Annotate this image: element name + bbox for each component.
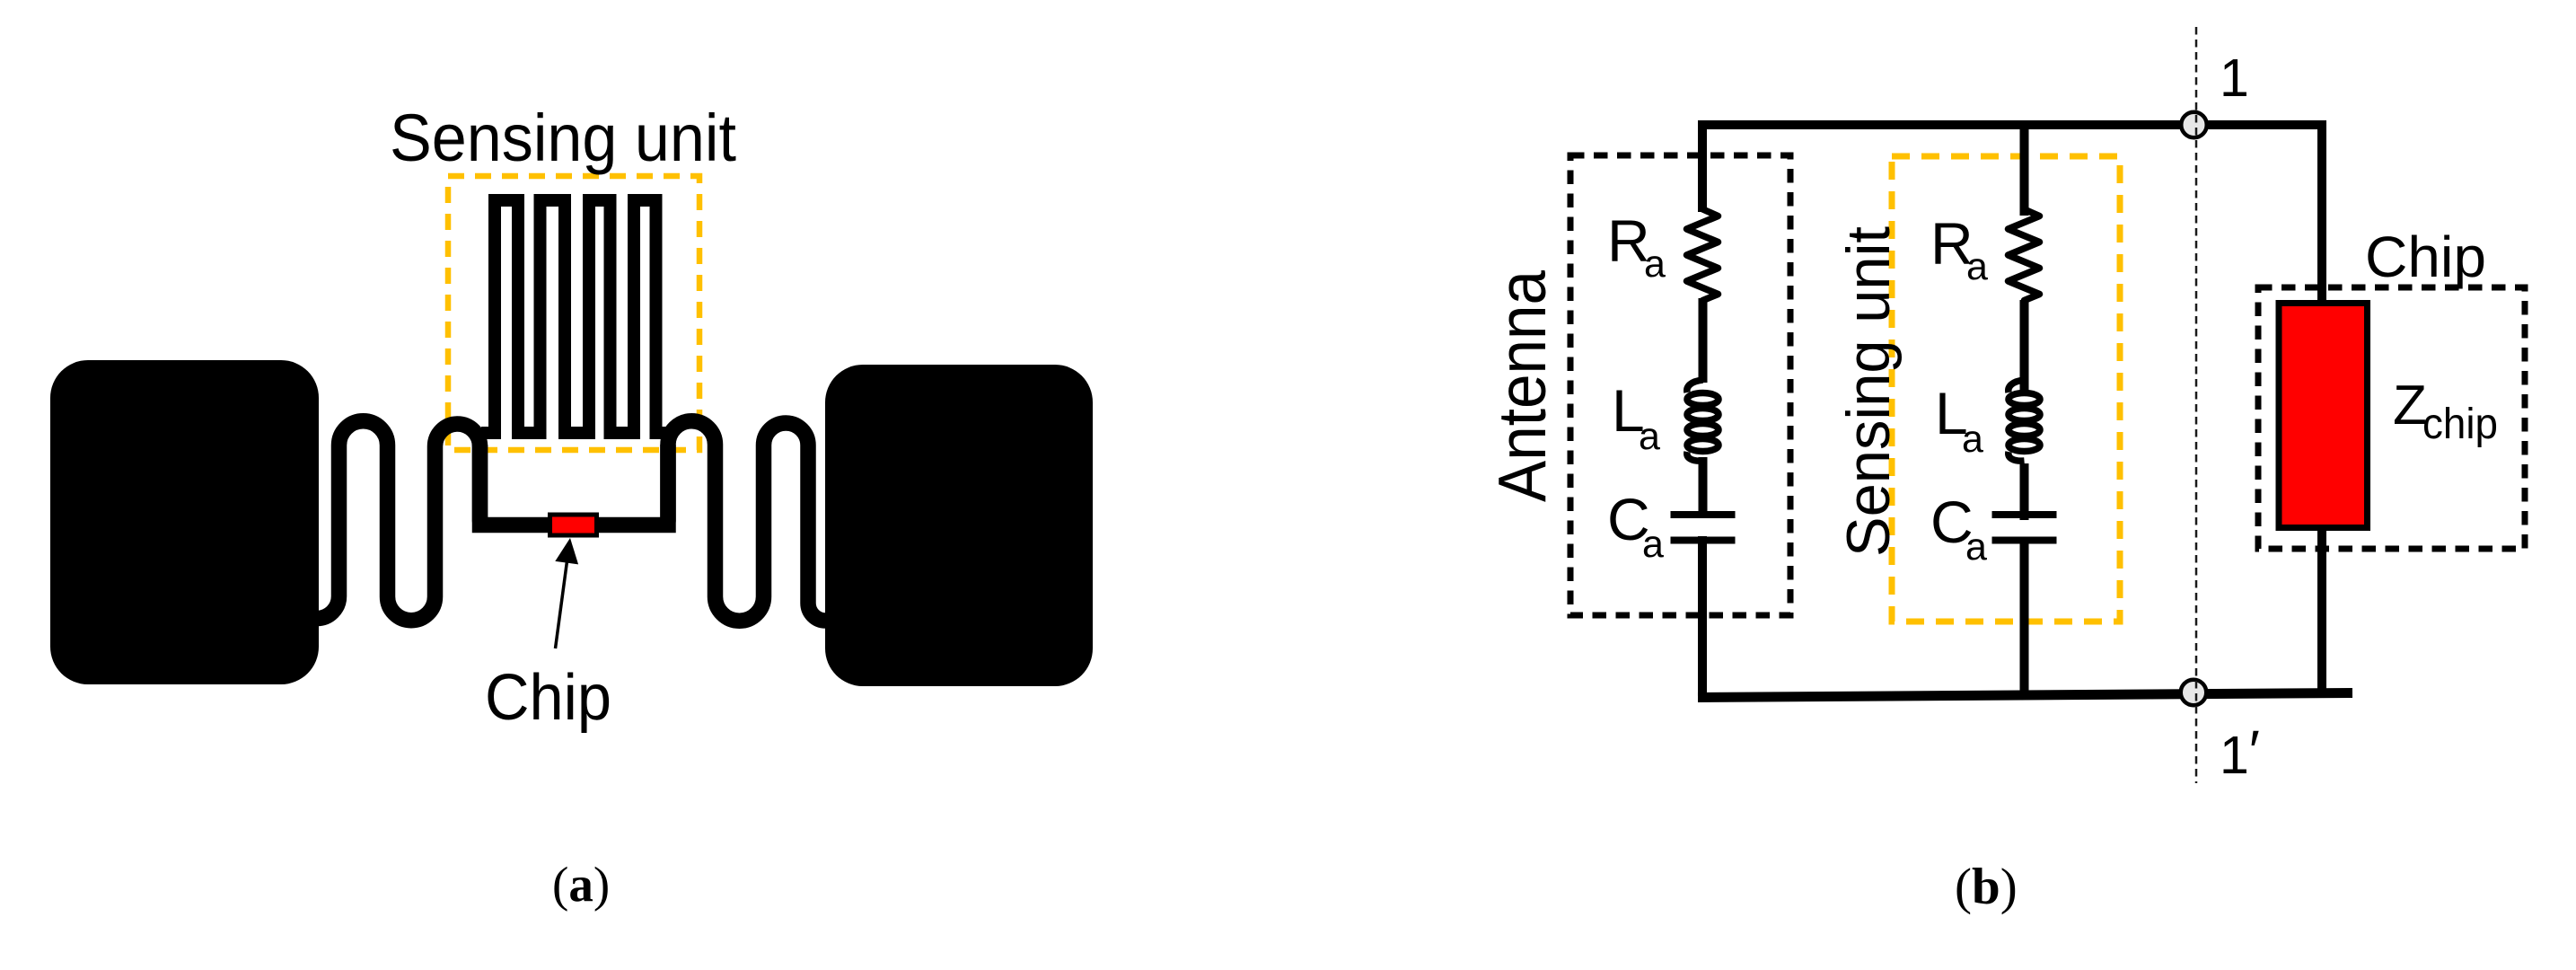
svg-text:chip: chip <box>2422 401 2498 448</box>
svg-text:Chip: Chip <box>485 662 611 734</box>
svg-text:1: 1 <box>2220 48 2249 108</box>
svg-text:a: a <box>1962 418 1983 461</box>
svg-text:a: a <box>1966 245 1988 288</box>
svg-text:Sensing unit: Sensing unit <box>1834 226 1903 557</box>
svg-text:(a): (a) <box>552 857 610 912</box>
svg-text:a: a <box>1965 525 1987 569</box>
svg-text:Sensing unit: Sensing unit <box>390 101 736 175</box>
svg-text:Antenna: Antenna <box>1484 270 1560 502</box>
svg-text:Chip: Chip <box>2365 225 2486 289</box>
svg-text:a: a <box>1644 242 1666 286</box>
svg-text:a: a <box>1642 523 1664 566</box>
svg-text:1′: 1′ <box>2220 719 2260 785</box>
svg-text:a: a <box>1639 415 1660 458</box>
svg-text:(b): (b) <box>1955 859 2018 915</box>
